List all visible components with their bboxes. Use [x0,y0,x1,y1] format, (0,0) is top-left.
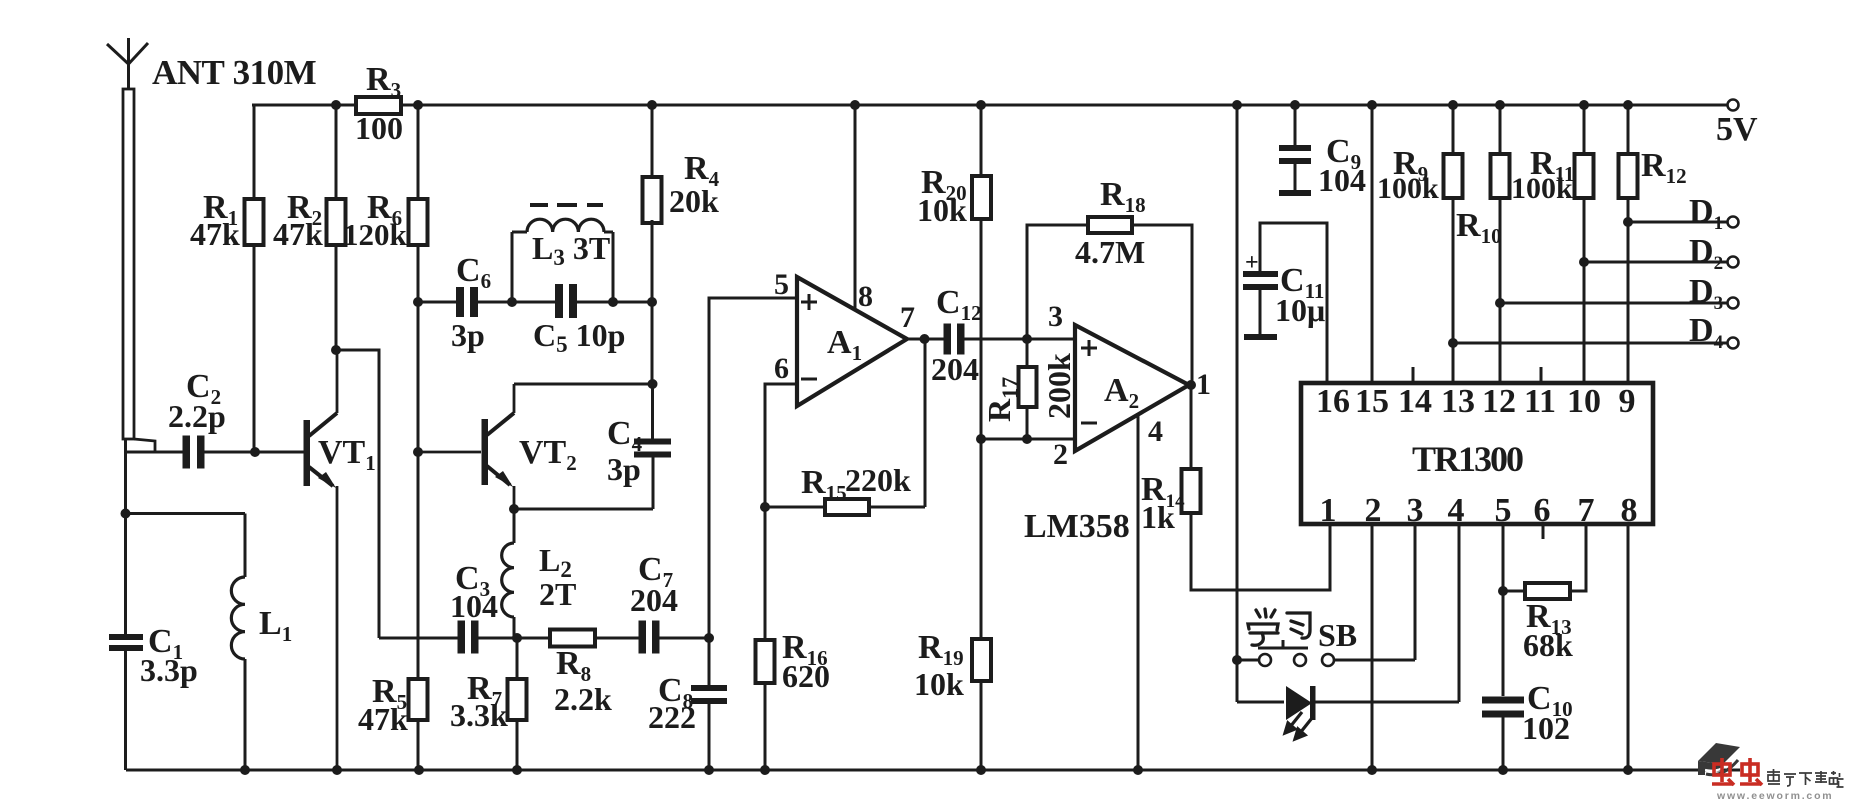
node ground junction R19 [976,765,986,775]
wire D4 [1453,342,1727,345]
resistor R1 [190,105,264,452]
svg-text:6: 6 [774,352,789,385]
wire pin16 to C11 [1260,223,1327,383]
node ground junction pin8 [1623,765,1633,775]
label 学习 [1248,609,1310,645]
node top rail junction A1 pin8 [850,100,860,110]
svg-text:100k: 100k [1377,172,1439,205]
capacitor C11 [1243,223,1327,383]
wire A1 output [907,338,946,341]
svg-text:4: 4 [1448,492,1465,529]
pin stub 11 [1540,367,1543,383]
node junction VT2 emitter [509,504,519,514]
node junction C7/C8 [704,633,714,643]
terminal 5V [1716,100,1758,149]
svg-text:7: 7 [1578,492,1595,529]
svg-text:10k: 10k [914,666,964,702]
node top rail junction R12 [1623,100,1633,110]
terminal D1 [1689,193,1739,234]
node junction SB [1232,655,1242,665]
node junction L3 right [608,297,618,307]
svg-text:12: 12 [1482,383,1516,420]
transistor VT1 [304,350,376,770]
svg-text:8: 8 [1621,492,1638,529]
terminal D4 [1689,312,1739,353]
resistor R7 [450,638,527,770]
svg-text:2: 2 [1053,438,1068,471]
svg-text:10μ: 10μ [1275,292,1325,328]
resistor R15 [765,339,925,515]
svg-text:SB: SB [1318,617,1357,653]
inductor L2 [502,509,577,638]
resistor R20 [917,105,991,439]
node junction R1/base [250,447,260,457]
wire VT1 base [126,451,305,454]
svg-text:3.3p: 3.3p [140,652,198,688]
op-amp A1 [774,268,915,406]
svg-text:2.2p: 2.2p [168,398,226,434]
resistor R12 [1619,105,1687,383]
wire VT2 emitter row to C4 bottom [514,456,653,509]
node junction A1 output [920,334,930,344]
svg-text:2.2k: 2.2k [554,681,612,717]
node junction D2 [1579,257,1589,267]
pin stub 6 [1542,524,1545,539]
resistor R11 [1511,105,1594,383]
node junction R13 [1498,586,1508,596]
wire pin8 to ground [1627,524,1630,770]
svg-text:1k: 1k [1141,499,1175,535]
wire C3 row [379,637,709,640]
node junction R4/C6 wire [647,297,657,307]
wire pin4 to LED [1458,524,1461,702]
svg-text:13: 13 [1441,383,1475,420]
svg-text:20k: 20k [669,183,719,219]
svg-text:102: 102 [1522,710,1570,746]
svg-text:3p: 3p [607,451,641,487]
wire R6 to R5 [417,452,420,679]
svg-text:14: 14 [1398,383,1432,420]
capacitor C1 [109,623,198,688]
resistor R13 [1503,524,1586,663]
wire D2 [1584,261,1727,264]
node junction VT2 collector wire [648,379,658,389]
node ground junction C8 [704,765,714,775]
node junction R6/C6 wire [413,297,423,307]
svg-text:2T: 2T [539,576,576,612]
resistor R2 [273,105,346,350]
capacitor C3 [450,560,498,654]
wire pin5 line [1502,524,1505,696]
node top rail junction R9 [1448,100,1458,110]
terminal D3 [1689,273,1739,314]
svg-text:3.3k: 3.3k [450,697,508,733]
resistor R8 [550,630,612,718]
capacitor C12 [931,284,982,387]
svg-text:15: 15 [1355,383,1389,420]
node junction R15/R16 [760,502,770,512]
wire C12 to A2 pin3 [962,338,1075,341]
resistor R5 [358,673,428,770]
resistor R6 [343,105,428,452]
svg-text:120k: 120k [343,217,408,252]
capacitor C10 [1482,680,1573,770]
resistor R10 [1456,105,1510,383]
svg-text:104: 104 [1318,162,1366,198]
wire A1 pin8 to rail [854,105,857,310]
node top rail junction R6 [413,100,423,110]
svg-text:3: 3 [1048,300,1063,333]
resistor R17 [981,339,1077,439]
resistor R18 [1027,176,1192,385]
node top rail junction C9 [1290,100,1300,110]
svg-text:10k: 10k [917,192,967,228]
node top rail junction R4 [647,100,657,110]
svg-text:16: 16 [1316,383,1350,420]
node top rail junction R20 [976,100,986,110]
node junction R20/pin2 wire [976,434,986,444]
logo eeworm [1698,743,1844,801]
capacitor C7 [630,551,678,654]
node top rail junction R10 [1495,100,1505,110]
svg-text:4: 4 [1148,415,1163,448]
node top rail junction R11 [1579,100,1589,110]
node junction D3 [1495,298,1505,308]
svg-text:5: 5 [1495,492,1512,529]
wire A2 pin4 to ground [1137,414,1140,770]
svg-text:4.7M: 4.7M [1075,234,1145,270]
wire learn line vertical [1236,105,1239,702]
svg-text:C5 10p: C5 10p [533,317,625,357]
svg-text:2: 2 [1365,492,1382,529]
node junction L2/R8/R7 [512,633,522,643]
wire pin2 row [981,438,1075,441]
transistor VT2 [419,384,577,509]
svg-text:8: 8 [858,280,873,313]
node ground junction L1 [240,765,250,775]
svg-text:TR1300: TR1300 [1412,439,1523,479]
label LM358 [1024,508,1130,545]
wire D3 [1500,302,1727,305]
pin stub 14 [1412,367,1415,383]
resistor R19 [914,439,991,770]
node junction R17 top [1022,334,1032,344]
node junction A2 output [1186,380,1196,390]
svg-text:100: 100 [355,110,403,146]
resistor R9 [1377,105,1463,383]
node top rail junction learn-line [1232,100,1242,110]
wire C8 node to A1 pin5 [709,298,797,638]
capacitor C4 [607,384,671,487]
node ground junction A2 pin4 [1133,765,1143,775]
svg-text:10: 10 [1567,383,1601,420]
pushbutton SB 学习 [1237,617,1415,666]
svg-text:47k: 47k [273,216,323,252]
svg-text:104: 104 [450,588,498,624]
svg-text:47k: 47k [190,216,240,252]
svg-text:5: 5 [774,268,789,301]
node junction R6/VT2 base [413,447,423,457]
node ground junction C10 [1498,765,1508,775]
capacitor C2 [168,368,226,469]
svg-text:LM358: LM358 [1024,508,1130,545]
IC TR1300 [1301,383,1653,529]
svg-text:6: 6 [1534,492,1551,529]
node junction D1 [1623,217,1633,227]
op-amp A2 [1048,300,1211,471]
capacitor C9 [1279,105,1366,198]
svg-text:ANT 310M: ANT 310M [152,53,317,92]
svg-text:www.eeworm.com: www.eeworm.com [1716,790,1833,801]
inductor L3 [512,205,613,302]
svg-text:7: 7 [900,301,915,334]
svg-text:5V: 5V [1716,111,1758,148]
svg-text:620: 620 [782,658,830,694]
wire C6-C5 row [418,301,652,304]
svg-text:9: 9 [1619,383,1636,420]
svg-text:220k: 220k [845,462,911,498]
terminal D2 [1689,233,1739,274]
node ground junction R16 [760,765,770,775]
resistor R3 [355,61,403,146]
wire A1 pin6 [765,384,797,507]
wire 5V top rail [252,104,1727,107]
capacitor C6 [451,252,491,353]
wire pin15 to rail [1371,105,1374,383]
node ground junction pin2 [1367,765,1377,775]
wire R2 junction to interstage line [336,350,379,638]
svg-text:1: 1 [1196,368,1211,401]
svg-text:3p: 3p [451,317,485,353]
svg-text:47k: 47k [358,701,408,737]
svg-text:L3 3T: L3 3T [532,230,610,270]
wire pin13/R9 [1452,343,1455,383]
node junction antenna/L1 [121,509,131,519]
wire pin2 to ground [1371,524,1374,770]
wire R4 to VT2 collector node [651,302,654,384]
antenna ANT 310M [107,38,317,452]
node ground junction R5 [414,765,424,775]
wire ground bottom rail [126,769,1740,772]
resistor R14 [1141,385,1330,590]
node junction R2/VT1 collector [331,345,341,355]
svg-text:68k: 68k [1523,627,1573,663]
svg-text:11: 11 [1524,383,1556,420]
svg-text:204: 204 [630,582,678,618]
wire VT2 collector to C4 top [514,383,653,386]
node junction R17 bottom [1022,434,1032,444]
svg-text:204: 204 [931,351,979,387]
capacitor C8 [648,638,727,770]
svg-text:222: 222 [648,699,696,735]
wire pin3 to SB [1414,524,1417,660]
inductor L1 [231,577,292,770]
node ground junction R7 [512,765,522,775]
node top rail junction R2 [331,100,341,110]
resistor R4 [643,105,720,302]
svg-text:200k: 200k [1041,353,1077,419]
LED [1237,686,1459,739]
svg-text:1: 1 [1320,492,1337,529]
node junction D4 [1448,338,1458,348]
node top rail junction pin15 [1367,100,1377,110]
node junction L3 left [507,297,517,307]
svg-text:100k: 100k [1511,172,1573,205]
svg-text:3: 3 [1407,492,1424,529]
capacitor C5 [533,284,625,357]
wire left vertical from antenna to C1 [124,439,127,770]
resistor R16 [756,507,831,770]
wire D1 [1628,221,1727,224]
node ground junction VT1 emitter [332,765,342,775]
wire to L1 [126,514,246,578]
